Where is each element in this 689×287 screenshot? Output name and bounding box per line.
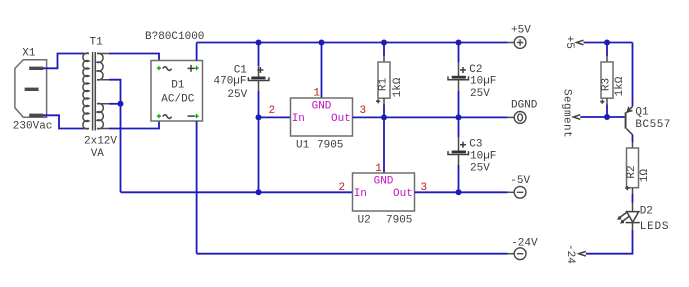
svg-text:1kΩ: 1kΩ [614, 76, 626, 96]
wire U1 GND pin to top rail [321, 43, 323, 99]
resistor R1 [376, 43, 390, 118]
wire C3 top [458, 117, 460, 137]
D1 pin marker - [194, 114, 198, 118]
node -24 arrow [579, 251, 586, 256]
D1 pin marker + [194, 66, 198, 70]
T1 secondary lead stubs [97, 54, 110, 129]
wire Q1 collector to R2 [632, 135, 634, 142]
wire X1 pin1 to T1 primary top [43, 54, 84, 69]
svg-text:-5V: -5V [510, 175, 530, 187]
svg-text:In: In [292, 113, 305, 125]
node +5 arrow [577, 40, 584, 45]
wire U2 Out to -5V rail [415, 191, 508, 193]
svg-text:In: In [354, 188, 367, 200]
svg-text:C2: C2 [469, 64, 482, 76]
transistor Q1 [625, 106, 633, 135]
junction C1 / U2 In line [256, 189, 262, 195]
svg-text:AC/DC: AC/DC [161, 94, 194, 106]
terminal -24V [508, 248, 526, 260]
svg-text:R2: R2 [626, 165, 638, 178]
svg-text:2: 2 [339, 182, 346, 194]
terminal DGND [508, 112, 526, 124]
svg-text:3: 3 [360, 105, 367, 117]
capacitor C2 [448, 62, 469, 91]
svg-text:+5V: +5V [511, 25, 531, 37]
rectifier D1 [151, 61, 203, 122]
svg-text:7905: 7905 [386, 215, 412, 227]
svg-text:Q1: Q1 [635, 106, 649, 118]
wire D1 + pin to top rail [196, 43, 198, 61]
wire D1 - pin down [196, 121, 198, 254]
wire Q1 emitter from +5 line [632, 43, 634, 107]
svg-text:VA: VA [91, 148, 105, 160]
junction +5 line / R3 [604, 40, 610, 46]
terminal -5V [508, 186, 526, 198]
svg-text:U1: U1 [296, 139, 310, 151]
svg-text:GND: GND [312, 100, 332, 112]
svg-text:D2: D2 [640, 205, 653, 217]
wire C1 bottom to -5V node line [258, 91, 260, 192]
wire T1 sec1 bottom to center tap [109, 80, 121, 193]
junction top rail / C1 [256, 40, 262, 46]
svg-text:1kΩ: 1kΩ [392, 77, 404, 97]
svg-text:DGND: DGND [511, 100, 538, 112]
D1 pin marker ac1 [157, 66, 161, 70]
connector X1 [15, 60, 47, 117]
wire U1 Out to DGND rail [353, 116, 508, 118]
svg-text:C3: C3 [469, 139, 482, 151]
svg-text:B?80C1000: B?80C1000 [145, 31, 204, 43]
junction -5V rail / C3 [456, 189, 462, 195]
svg-text:1: 1 [313, 88, 320, 100]
junction center tap [118, 101, 124, 107]
wire U2 In line from center tap [121, 191, 353, 193]
resistor R3 [600, 43, 613, 118]
LED D2 [618, 203, 639, 230]
terminal +5V [508, 37, 526, 49]
T1 secondary winding 2 [97, 103, 103, 128]
junction top rail / U1 GND [319, 40, 325, 46]
svg-text:-24: -24 [564, 244, 576, 264]
junction DGND rail / C2-C3 [456, 114, 462, 120]
svg-text:T1: T1 [90, 37, 104, 49]
wire U2 GND pin from DGND rail [383, 117, 385, 173]
svg-text:2: 2 [269, 105, 276, 117]
svg-text:25V: 25V [227, 89, 247, 101]
svg-text:1: 1 [375, 163, 382, 175]
svg-text:-24V: -24V [511, 238, 538, 250]
svg-text:U2: U2 [358, 215, 371, 227]
regulator U2 7905 [353, 173, 415, 211]
wire X1 pin2 to T1 primary bottom [43, 115, 84, 128]
resistor R2 [625, 142, 638, 194]
svg-text:Out: Out [393, 188, 413, 200]
T1 primary winding [83, 53, 89, 129]
svg-text:10µF: 10µF [470, 76, 496, 88]
wire C1 top [258, 43, 260, 67]
svg-text:25V: 25V [470, 88, 490, 100]
svg-text:LEDS: LEDS [640, 221, 670, 233]
svg-text:Segment: Segment [560, 89, 572, 138]
wire R2 to D2 [632, 194, 634, 203]
svg-text:GND: GND [374, 175, 394, 187]
svg-text:X1: X1 [22, 48, 36, 60]
junction Segment line / R3 [604, 114, 610, 120]
wire T1 sec1 top to D1 ac1 [109, 54, 159, 61]
wire T1 sec2 bottom to D1 ac2 [109, 121, 159, 129]
svg-text:+5: +5 [563, 36, 575, 49]
svg-text:BC557: BC557 [635, 119, 671, 131]
wire C2 top [458, 43, 460, 63]
junction top rail / C2 [456, 40, 462, 46]
transformer T1 [83, 52, 110, 131]
T1 core [93, 52, 96, 131]
regulator U1 7905 [291, 98, 353, 136]
wire Segment line to Q1 base [580, 116, 624, 118]
svg-text:D1: D1 [171, 80, 185, 92]
capacitor C3 [448, 137, 469, 165]
wire D2 cathode to -24 arrow [586, 230, 633, 254]
capacitor C1 [248, 66, 269, 91]
T1 secondary winding 1 [97, 53, 103, 80]
svg-text:230Vac: 230Vac [13, 121, 53, 133]
junction DGND rail / R1-U2GND [381, 114, 387, 120]
svg-text:7905: 7905 [317, 139, 343, 151]
svg-text:10µF: 10µF [470, 150, 496, 162]
svg-text:470µF: 470µF [214, 76, 247, 88]
node Segment arrow [573, 115, 580, 120]
svg-text:Out: Out [331, 113, 351, 125]
svg-text:1Ω: 1Ω [639, 169, 651, 183]
T1 primary lead stubs [84, 54, 89, 129]
wire +5 line [584, 42, 633, 44]
wire -24V rail [197, 253, 508, 255]
svg-text:25V: 25V [470, 163, 490, 175]
svg-text:R1: R1 [378, 78, 390, 92]
wire C3 bottom to -5V rail [458, 165, 460, 192]
wire T1 sec2 top to center tap junction [109, 103, 121, 105]
svg-text:2x12V: 2x12V [84, 135, 117, 147]
wire C2 bottom to DGND rail [458, 91, 460, 117]
junction C1 / U1 In [256, 114, 262, 120]
wire U1 In [259, 116, 291, 118]
wire top +5V rail [197, 42, 508, 44]
svg-text:R3: R3 [601, 78, 613, 91]
junction top rail / R1 [381, 40, 387, 46]
D1 pin marker ac2 [157, 114, 161, 118]
